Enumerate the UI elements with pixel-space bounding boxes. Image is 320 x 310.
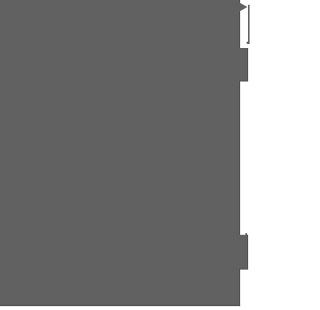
panel right border: [239, 0, 240, 306]
upper block: [238, 48, 247, 81]
upper block bottom border: [239, 81, 248, 82]
stem bar: [248, 5, 250, 44]
lower block bottom border: [239, 269, 248, 270]
panel bottom border: [0, 305, 240, 306]
gray panel: [0, 0, 239, 305]
triangle pointer: [239, 2, 247, 11]
upper block right border: [247, 48, 248, 81]
lower block: [238, 235, 247, 269]
lower block nub: [245, 233, 247, 235]
lower block right border: [247, 235, 248, 269]
stem hook: [247, 42, 250, 44]
